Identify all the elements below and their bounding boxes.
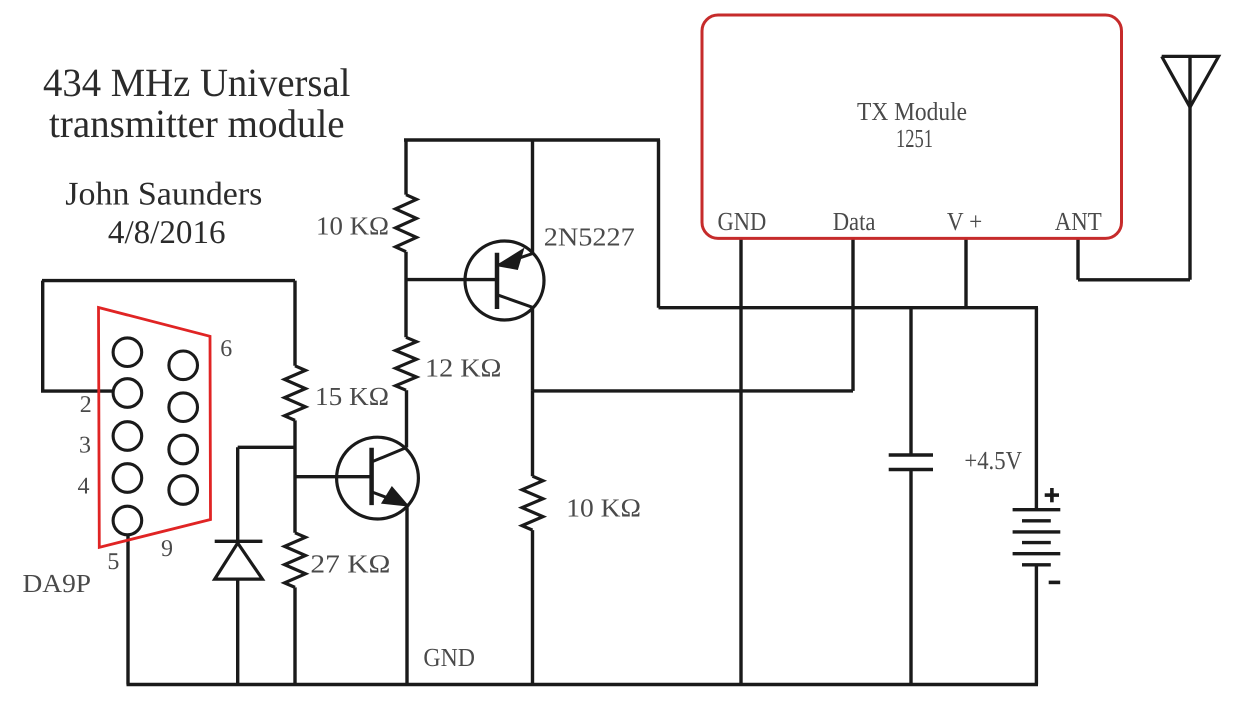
- Q2 emitter arrow: [383, 488, 407, 505]
- svg-text:434 MHz Universal: 434 MHz Universal: [43, 60, 350, 105]
- svg-text:John Saunders: John Saunders: [65, 177, 262, 213]
- battery plus sign: [1045, 488, 1059, 502]
- wire Q1 emitter to data node: [531, 307, 534, 391]
- svg-text:15 KΩ: 15 KΩ: [315, 382, 389, 411]
- svg-text:V +: V +: [947, 207, 982, 236]
- wire V+ rail: [659, 306, 1039, 309]
- svg-text:Data: Data: [833, 207, 876, 236]
- wire TX GND pin drop: [739, 238, 742, 684]
- wire battery top lead: [1035, 308, 1038, 510]
- wire data node to 10K2: [531, 391, 534, 476]
- transistor Q2 (NPN, lower): [337, 437, 419, 519]
- capacitor C1 plates: [889, 455, 933, 470]
- resistor R5 10K: [522, 476, 543, 530]
- svg-text:3: 3: [79, 433, 91, 459]
- battery minus sign: [1049, 581, 1061, 585]
- connector pin circles left column: [113, 338, 142, 535]
- transistor Q1 2N5227 (PNP, upper): [465, 241, 544, 320]
- wire Q2 base: [295, 475, 372, 478]
- svg-text:transmitter module: transmitter module: [49, 101, 345, 146]
- svg-text:6: 6: [220, 336, 232, 362]
- svg-text:4: 4: [78, 474, 90, 500]
- wire Q1 base: [406, 278, 497, 281]
- wire left drop to pin2: [41, 281, 113, 392]
- wire data rail: [533, 389, 854, 392]
- wire 15K top lead: [293, 281, 296, 366]
- wire diode top lead: [236, 447, 239, 541]
- wire diode link: [238, 446, 295, 449]
- wire battery bottom lead: [1035, 565, 1038, 685]
- svg-text:10 KΩ: 10 KΩ: [316, 212, 389, 241]
- svg-text:2N5227: 2N5227: [544, 223, 635, 252]
- wire capacitor top lead: [909, 308, 912, 455]
- svg-text:GND: GND: [718, 207, 767, 236]
- svg-text:5: 5: [107, 549, 119, 575]
- wire pin5 drop: [126, 535, 129, 685]
- wire connector top rail: [42, 279, 295, 282]
- antenna mast: [1188, 56, 1191, 279]
- wire 27K bottom to ground rail: [293, 587, 296, 684]
- wire diode bottom lead: [236, 579, 239, 684]
- connector DA9P red shell: [99, 308, 211, 548]
- svg-text:4/8/2016: 4/8/2016: [108, 215, 226, 251]
- connector pin circles right column: [169, 351, 198, 504]
- wire 10K bottom to 12K top: [404, 252, 407, 338]
- resistor R2 12K: [396, 337, 417, 390]
- wire Q1 top lead: [531, 140, 534, 254]
- TX module box: [702, 15, 1122, 238]
- resistor R3 15K: [285, 366, 306, 421]
- diode D1: [215, 541, 263, 579]
- wire 15K bottom to 27K top: [293, 420, 296, 532]
- wire bottom ground rail: [127, 683, 1039, 686]
- wire 12K bottom to Q2 collector: [405, 390, 408, 447]
- svg-text:9: 9: [161, 536, 173, 562]
- svg-text:10 KΩ: 10 KΩ: [566, 493, 641, 522]
- wire 10K top lead: [404, 139, 407, 195]
- svg-text:GND: GND: [423, 643, 475, 672]
- wire top rail: [404, 138, 660, 141]
- Q1 emitter arrow: [499, 250, 523, 268]
- wire capacitor bottom lead: [909, 470, 912, 685]
- wire TX V+ pin drop: [964, 238, 967, 307]
- svg-text:2: 2: [80, 392, 92, 418]
- wire TX ANT pin drop: [1078, 238, 1190, 279]
- svg-text:+4.5V: +4.5V: [964, 446, 1022, 475]
- resistor R1 10K: [396, 195, 417, 252]
- wire 10K2 bottom to ground rail: [531, 530, 534, 684]
- battery B1: [1013, 510, 1061, 565]
- antenna: [1162, 56, 1219, 107]
- svg-text:12 KΩ: 12 KΩ: [425, 354, 502, 383]
- svg-text:DA9P: DA9P: [23, 569, 92, 598]
- svg-text:1251: 1251: [896, 124, 933, 153]
- svg-text:TX Module: TX Module: [857, 97, 967, 126]
- svg-text:ANT: ANT: [1055, 207, 1102, 236]
- wire Q2 emitter drop: [405, 505, 408, 685]
- resistor R4 27K: [285, 533, 306, 588]
- wire TX Data pin drop: [851, 238, 854, 391]
- svg-text:27 KΩ: 27 KΩ: [310, 549, 390, 578]
- wire right drop from top rail: [657, 140, 660, 308]
